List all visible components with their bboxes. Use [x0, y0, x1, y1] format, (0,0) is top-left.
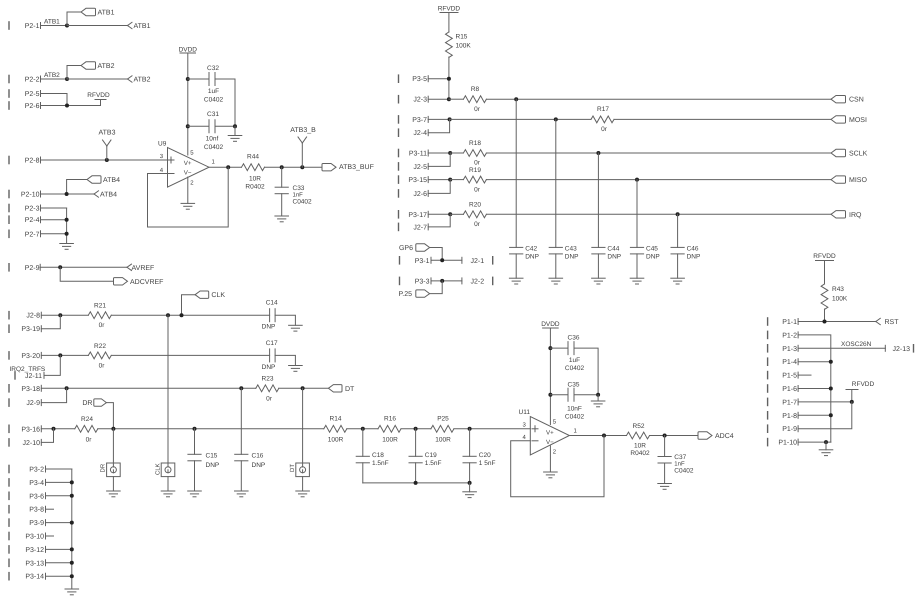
ground (C42) [509, 278, 523, 284]
svg-text:100R: 100R [328, 436, 344, 443]
off-page arrow ATB2 [128, 76, 151, 84]
capacitor C43 DNP [549, 245, 578, 260]
resistor R20 [463, 202, 486, 229]
wire C18 stub [362, 429, 364, 457]
capacitor C45 DNP [630, 245, 659, 260]
svg-text:V−: V− [184, 169, 192, 176]
svg-text:0r: 0r [474, 106, 481, 113]
resistor R43 [821, 284, 848, 309]
ground (C46) [671, 278, 685, 284]
wire DR tag down [106, 403, 113, 429]
connector pin P2-6 [9, 102, 41, 110]
net tag ADC4 [698, 432, 734, 440]
connector pin P3-9 [9, 519, 46, 527]
op-amp U9 [158, 141, 209, 188]
wire C32 to right rail [215, 78, 235, 80]
connector pin P3-1 [400, 257, 432, 265]
junction C15 top [193, 427, 197, 431]
op-amp U11 [519, 409, 570, 455]
wire P1-9 [798, 402, 852, 429]
svg-text:J2-11: J2-11 [25, 373, 42, 380]
capacitor C46 DNP [671, 245, 700, 260]
wire U11 output [569, 435, 626, 437]
wire U9 pin2 to ground [187, 177, 189, 203]
power flag DVDD (U11) [541, 321, 560, 328]
wire DVDD to C32 [188, 78, 209, 80]
svg-text:C36: C36 [568, 335, 580, 342]
net tag MOSI [831, 116, 867, 124]
net tag P.25 [399, 290, 430, 298]
svg-text:ATB2: ATB2 [98, 63, 115, 70]
svg-text:V+: V+ [184, 160, 192, 167]
wire C19 stub [415, 429, 417, 457]
junction P3-6 bus [70, 494, 74, 498]
power flag RFVDD [87, 92, 110, 106]
svg-text:U11: U11 [519, 409, 531, 416]
wire P2 ground bus [66, 208, 68, 244]
connector pin P1-7 [768, 398, 799, 406]
svg-text:J2-7: J2-7 [413, 224, 427, 231]
net tag ATB4 (flag) [87, 176, 120, 184]
net flag ATB3_B [290, 127, 316, 167]
svg-text:10nF: 10nF [567, 406, 582, 413]
svg-text:CSN: CSN [849, 97, 864, 104]
junction C18 top [361, 427, 365, 431]
svg-text:ADC4: ADC4 [715, 433, 734, 440]
wire P3-6 [46, 495, 72, 497]
wire P3-7 [428, 118, 449, 120]
wire P1-10 [798, 441, 831, 443]
svg-text:CLK: CLK [211, 292, 225, 299]
net tag SCLK [831, 149, 868, 157]
svg-text:P2-1: P2-1 [25, 23, 40, 30]
svg-text:0r: 0r [99, 322, 106, 329]
junction C20 top [468, 427, 472, 431]
junction P3-14 bus [70, 574, 74, 578]
wire P3-10 stub [46, 535, 54, 537]
off-page arrow ATB4 [94, 191, 117, 199]
U9 V- label [184, 169, 192, 176]
wire R44 to ATB3_BUF tag [265, 166, 323, 168]
wire P3-15 [428, 179, 450, 181]
wire CLK tag down [182, 295, 196, 316]
svg-text:DVDD: DVDD [179, 47, 198, 54]
svg-text:P2-5: P2-5 [25, 91, 40, 98]
svg-text:R19: R19 [469, 167, 481, 174]
svg-text:J2-5: J2-5 [413, 164, 427, 171]
ground (CLK testpoint) [161, 491, 175, 497]
svg-text:C0402: C0402 [565, 414, 585, 421]
U9 + symbol [168, 157, 174, 163]
resistor R17 [591, 106, 614, 133]
wire C44 to ground [597, 254, 599, 278]
connector pin J2-13 [885, 345, 913, 353]
svg-text:V−: V− [546, 439, 554, 446]
junction P1-1 R43 [823, 320, 827, 324]
wire J2-9 [41, 388, 66, 402]
wire C18 down [362, 463, 364, 483]
svg-text:1.5nF: 1.5nF [425, 460, 442, 467]
wire C45 to ground [636, 254, 638, 278]
svg-text:C37: C37 [674, 454, 686, 461]
wire R43 to P1-1 [824, 309, 826, 322]
svg-text:100K: 100K [832, 296, 848, 303]
svg-text:1nF: 1nF [293, 192, 304, 199]
svg-text:10nf: 10nf [206, 136, 219, 143]
connector pin J2-10 [9, 439, 41, 447]
wire R21 to C14 [111, 314, 269, 316]
ground (C45) [630, 278, 644, 284]
junction ATB4 node [65, 192, 69, 196]
wire C43 up [555, 119, 557, 247]
svg-text:ATB1: ATB1 [44, 19, 60, 26]
svg-text:P3-8: P3-8 [29, 507, 44, 514]
svg-text:P1-6: P1-6 [782, 386, 797, 393]
net tag MISO [831, 176, 867, 184]
svg-text:V+: V+ [546, 430, 554, 437]
svg-text:SCLK: SCLK [849, 151, 868, 158]
junction P3-11 [448, 151, 452, 155]
ground (P1-10) [819, 450, 833, 456]
svg-text:0r: 0r [601, 126, 608, 133]
wire P2-5 [41, 94, 68, 106]
connector pin P2-3 [9, 204, 41, 212]
off-page arrow RST [876, 318, 899, 326]
svg-text:P3-15: P3-15 [408, 177, 427, 184]
svg-text:P2-3: P2-3 [25, 206, 40, 213]
wire U11 pin2 to ground [549, 446, 551, 472]
wire P.25 to P3-3 [430, 281, 443, 294]
connector pin P3-5 [399, 75, 429, 83]
svg-text:C45: C45 [646, 245, 658, 252]
U11 pin 1 number [574, 428, 578, 435]
U9 pin 5 number [190, 150, 194, 157]
svg-text:DT: DT [289, 464, 296, 472]
connector pin J2-5 [399, 163, 429, 171]
svg-text:R20: R20 [469, 202, 481, 209]
net tag CSN [831, 96, 864, 104]
svg-text:P3-9: P3-9 [29, 520, 44, 527]
wire R18 to SCLK tag [486, 152, 831, 154]
wire P3-11 to R18 [450, 152, 463, 154]
wire P3-19 [41, 315, 60, 329]
wire P3-16 to R24 [41, 428, 75, 430]
svg-text:DNP: DNP [525, 254, 539, 261]
ground (DR testpoint) [107, 491, 121, 497]
svg-text:P1-7: P1-7 [782, 399, 797, 406]
wire C37 to ground [664, 463, 666, 483]
svg-text:P1-5: P1-5 [782, 373, 797, 380]
wire P3-18 to R23 [41, 387, 256, 389]
svg-text:P3-4: P3-4 [29, 480, 44, 487]
svg-text:ATB3: ATB3 [99, 130, 116, 137]
svg-text:P3-3: P3-3 [415, 278, 430, 285]
wire R20 to IRQ tag [486, 213, 831, 215]
svg-text:100K: 100K [456, 43, 472, 50]
svg-text:R23: R23 [262, 376, 274, 383]
U11 + symbol [532, 426, 538, 432]
svg-text:DR: DR [82, 400, 92, 407]
svg-text:C19: C19 [425, 452, 437, 459]
svg-text:1.5nF: 1.5nF [372, 460, 389, 467]
wire CLK testpoint to ground [167, 477, 169, 491]
ground (C33) [275, 216, 289, 222]
wire R23 to DT tag [279, 387, 329, 389]
wire GP6 to P3-1 [430, 248, 443, 261]
svg-text:ATB4: ATB4 [103, 177, 120, 184]
junction P3-12 bus [70, 547, 74, 551]
svg-text:P1-4: P1-4 [782, 359, 797, 366]
svg-text:RFVDD: RFVDD [852, 381, 875, 388]
svg-text:1nF: 1nF [674, 461, 685, 468]
svg-text:P1-3: P1-3 [782, 346, 797, 353]
junction CLK-testpoint [166, 313, 170, 317]
capacitor C19 [409, 452, 441, 467]
wire P3-2 [46, 468, 72, 470]
resistor R14 [324, 415, 347, 443]
connector pin P2-1 [9, 22, 41, 30]
junction P1-6 bus [829, 387, 833, 391]
connector pin P2-2 [9, 75, 41, 83]
svg-text:C42: C42 [525, 245, 537, 252]
svg-text:P3-5: P3-5 [412, 76, 427, 83]
wire C15 stub [194, 429, 196, 455]
wire rail to ground [234, 126, 236, 135]
connector pin P3-6 [9, 492, 46, 500]
svg-text:P3-20: P3-20 [21, 353, 40, 360]
wire R52 to ADC4 tag [650, 435, 699, 437]
svg-text:0r: 0r [266, 395, 273, 402]
svg-text:J2-9: J2-9 [26, 400, 40, 407]
svg-text:C16: C16 [252, 453, 264, 460]
wire R14 to R16 [347, 428, 378, 430]
junction P3-9 bus [70, 521, 74, 525]
wire C42 to ground [515, 254, 517, 278]
svg-text:P1-9: P1-9 [782, 426, 797, 433]
svg-text:J2-1: J2-1 [471, 258, 485, 265]
connector pin J2-2 [462, 277, 493, 285]
wire J2-6 [428, 180, 450, 194]
net tag ATB3_BUF [322, 164, 374, 172]
U9 V+ label [184, 160, 192, 167]
junction DR tap [111, 427, 115, 431]
svg-text:P3-14: P3-14 [25, 574, 44, 581]
junction IRQ-C46 [676, 212, 680, 216]
capacitor C32 [204, 65, 224, 104]
svg-text:ADCVREF: ADCVREF [130, 279, 163, 286]
junction ATB3_B node [300, 165, 304, 169]
wire rail to ground (C35/C36) [597, 395, 599, 401]
wire P1-2 [798, 335, 831, 442]
U11 V+ label [546, 430, 554, 437]
wire P2-2 to junction [41, 78, 68, 80]
svg-text:J2-3: J2-3 [413, 97, 427, 104]
connector pin P3-16 [9, 425, 41, 433]
svg-text:C32: C32 [207, 65, 219, 72]
svg-text:R43: R43 [832, 286, 844, 293]
capacitor C35 [565, 382, 585, 421]
connector pin P3-4 [9, 479, 46, 487]
junction P3-20 [58, 353, 62, 357]
wire C20 down [469, 463, 471, 483]
junction J2-8 [58, 313, 62, 317]
net tag DT [328, 385, 355, 393]
svg-text:P3-16: P3-16 [21, 426, 40, 433]
connector pin P3-17 [399, 211, 429, 219]
svg-text:R17: R17 [597, 106, 609, 113]
svg-text:DNP: DNP [565, 254, 579, 261]
wire P1-3 to J2-13 [798, 347, 885, 349]
svg-text:P25: P25 [437, 415, 449, 422]
svg-text:R44: R44 [247, 154, 259, 161]
junction C33 node [280, 165, 284, 169]
connector pin P1-8 [768, 412, 799, 420]
wire R22 to C17 [111, 354, 269, 356]
wire C16 stub [240, 388, 242, 454]
capacitor C16 DNP [235, 453, 266, 470]
junction C19 top [414, 427, 418, 431]
U11 V- label [546, 439, 554, 446]
svg-text:ATB2: ATB2 [134, 77, 151, 84]
wire P2-1 to junction [41, 25, 68, 27]
wire C16 to ground [240, 461, 242, 491]
svg-text:C0402: C0402 [674, 468, 694, 475]
wire RFVDD to P1-7 [851, 390, 853, 402]
wire C14 to ground [275, 315, 295, 325]
wire P3-1 to J2-1 [431, 259, 462, 261]
junction DVDD-C36 [548, 346, 552, 350]
svg-text:C33: C33 [293, 185, 305, 192]
resistor R22 [88, 343, 111, 370]
ground (P3 bus) [65, 589, 79, 595]
junction P3-4 bus [70, 480, 74, 484]
svg-text:RFVDD: RFVDD [87, 92, 110, 99]
svg-text:J2-6: J2-6 [413, 191, 427, 198]
svg-text:C31: C31 [207, 111, 219, 118]
connector pin P3-7 [399, 116, 429, 124]
wire R24 to R14 [98, 428, 324, 430]
resistor R21 [88, 303, 111, 329]
wire P1-6 [798, 388, 831, 390]
svg-text:DNP: DNP [206, 462, 220, 469]
svg-text:1uF: 1uF [208, 88, 219, 95]
junction P2-9 [58, 265, 62, 269]
wire J2-10 [41, 429, 53, 443]
svg-text:DR: DR [100, 463, 107, 472]
svg-text:DT: DT [345, 386, 355, 393]
wire rail to ground [469, 483, 471, 492]
connector pin J2-3 [399, 96, 429, 104]
resistor R16 [378, 415, 401, 443]
svg-text:IRQ: IRQ [849, 212, 862, 219]
wire DVDD to C36 [550, 347, 568, 349]
svg-text:1uF: 1uF [569, 357, 580, 364]
connector pin P3-20 [9, 352, 41, 360]
ground (P2 bus) [60, 244, 74, 250]
connector pin P1-9 [768, 425, 799, 433]
svg-text:C0402: C0402 [204, 144, 224, 151]
wire P2-8 to U9 + [41, 159, 168, 161]
svg-text:AVREF: AVREF [132, 265, 155, 272]
resistor P25 [431, 415, 454, 443]
svg-text:R15: R15 [456, 34, 468, 41]
wire RFVDD to R15 [448, 13, 450, 33]
wire J2-3 [428, 98, 449, 100]
wire C15 to ground [194, 461, 196, 491]
off-page arrow ATB1 [128, 22, 151, 30]
connector pin J2-7 [399, 223, 429, 231]
wire P3-17 [428, 213, 450, 215]
wire P3-11 [428, 152, 450, 154]
svg-text:C0402: C0402 [204, 97, 224, 104]
svg-text:C20: C20 [479, 452, 491, 459]
wire J2-7 [428, 214, 450, 227]
junction P3-16 [52, 427, 56, 431]
resistor R8 [463, 86, 486, 113]
svg-text:R52: R52 [633, 423, 645, 430]
wire P3-4 [46, 481, 72, 483]
junction P2-7 bus [65, 232, 69, 236]
wire DVDD rail to U11 pin5 [549, 328, 551, 425]
connector pin J2-11 [15, 372, 44, 380]
svg-text:R21: R21 [94, 303, 106, 310]
wire DT testpoint [302, 388, 304, 467]
junction right rail [233, 124, 237, 128]
svg-text:XOSC26N: XOSC26N [841, 341, 872, 348]
junction P3-5 rail [447, 77, 451, 81]
wire P2-6 to RFVDD [41, 105, 101, 107]
svg-text:RFVDD: RFVDD [438, 6, 461, 13]
resistor R52 [627, 423, 650, 457]
junction C19 rail [414, 481, 418, 485]
svg-text:DVDD: DVDD [541, 321, 560, 328]
svg-text:C43: C43 [565, 245, 577, 252]
net tag DR [82, 399, 106, 407]
capacitor C36 [565, 335, 585, 373]
U9 pin 2 number [190, 180, 194, 187]
svg-text:C15: C15 [206, 453, 218, 460]
wire junction to ATB2 off-page [67, 78, 128, 80]
svg-text:P1-2: P1-2 [782, 332, 797, 339]
svg-text:C17: C17 [266, 340, 278, 347]
svg-text:P.25: P.25 [399, 291, 413, 298]
connector pin J2-8 [9, 312, 41, 320]
connector pin P1-10 [768, 439, 799, 447]
svg-text:0r: 0r [474, 221, 481, 228]
connector pin P2-8 [9, 156, 41, 164]
ground (C31/C32) [228, 136, 242, 142]
ground (C44) [592, 278, 606, 284]
connector pin P3-13 [9, 559, 46, 567]
junction DVDD-C31 [186, 124, 190, 128]
svg-text:MISO: MISO [849, 177, 867, 184]
junction C16 top [239, 386, 243, 390]
ground (U11) [544, 472, 558, 478]
wire P3-3 to J2-2 [431, 280, 462, 282]
connector pin J2-1 [462, 257, 493, 265]
ground (C35/C36) [591, 401, 605, 407]
wire P3-15 to R19 [450, 179, 463, 181]
svg-text:GP6: GP6 [399, 245, 413, 252]
svg-text:ATB1: ATB1 [98, 10, 115, 17]
wire R19 to MISO tag [486, 179, 831, 181]
wire DVDD to C35 [550, 394, 568, 396]
wire R15 to J2-3 [448, 57, 450, 99]
connector pin J2-9 [9, 399, 41, 407]
net tag CLK [195, 291, 225, 299]
svg-text:P2-9: P2-9 [25, 265, 40, 272]
svg-text:P2-7: P2-7 [25, 231, 40, 238]
